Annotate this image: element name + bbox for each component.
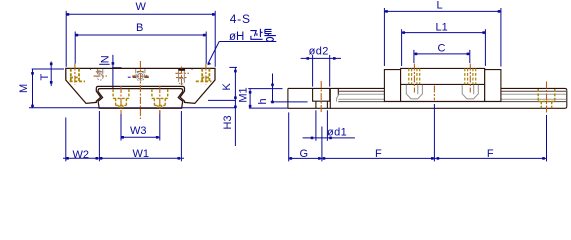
crosshair screw center short bbox=[137, 71, 144, 73]
dim L right ext bbox=[500, 8, 502, 67]
rail top line bbox=[288, 88, 567, 90]
ext rail left end bbox=[288, 112, 290, 161]
dim W1 right ext bbox=[180, 111, 182, 161]
dim W2/W1 chain line bbox=[63, 157, 184, 159]
dim L1 right ext bbox=[484, 29, 486, 66]
dim M top ext bbox=[32, 68, 64, 70]
W1 arrows bbox=[100, 157, 103, 160]
hidden block holes left bbox=[409, 68, 420, 84]
dim W3 right ext bbox=[159, 111, 161, 141]
block side view (covers rail) bbox=[384, 68, 501, 101]
crosshair screw right bbox=[175, 72, 189, 74]
dim C left tick bbox=[413, 50, 415, 63]
block body bbox=[401, 68, 485, 101]
rail left end bbox=[287, 88, 289, 108]
G arrows bbox=[290, 157, 293, 160]
ext rail top left bbox=[248, 88, 282, 90]
centerline screw right bbox=[181, 67, 183, 86]
dim W1 left ext bbox=[98, 111, 100, 161]
svg-text:L1: L1 bbox=[436, 22, 448, 34]
ext hole2 bbox=[433, 104, 435, 161]
dim M bottom ext bbox=[29, 107, 236, 109]
right view dims bbox=[248, 8, 546, 161]
block inner line bbox=[401, 83, 485, 85]
svg-text:ød2: ød2 bbox=[309, 45, 329, 57]
hidden rail hole right end bbox=[538, 89, 555, 108]
H3 arrow bbox=[234, 106, 237, 109]
section boundary 2 bbox=[337, 88, 339, 95]
dim W line bbox=[66, 13, 215, 15]
dim T vertical bbox=[50, 62, 52, 87]
orange centerlines left view bbox=[75, 61, 206, 119]
block seal step ticks bbox=[91, 68, 193, 69]
T arrows bbox=[50, 63, 53, 66]
K arrows bbox=[234, 70, 237, 73]
labels right view bbox=[237, 0, 494, 160]
block right end cap bbox=[485, 70, 501, 102]
d1 arrows bbox=[311, 137, 314, 140]
svg-text:T: T bbox=[39, 74, 51, 81]
dim L1 left ext bbox=[401, 29, 403, 66]
centerline block hole right bbox=[469, 64, 471, 93]
dim W3 line bbox=[121, 136, 160, 138]
centerline wing hole right bbox=[205, 64, 207, 85]
ext hole1 bbox=[321, 127, 323, 162]
centerline rail hole right bbox=[159, 86, 161, 114]
hidden block holes right bbox=[465, 68, 476, 84]
svg-text:M1: M1 bbox=[237, 87, 249, 102]
dim h vertical bbox=[272, 74, 274, 102]
d2 arrows bbox=[307, 57, 310, 60]
dim B line bbox=[75, 34, 206, 36]
leader arrowhead bbox=[207, 62, 211, 66]
svg-text:W3: W3 bbox=[130, 125, 147, 137]
W arrows bbox=[67, 13, 70, 16]
B arrows bbox=[76, 34, 79, 37]
dim N small ref line bbox=[112, 67, 121, 69]
dim C right tick bbox=[469, 50, 471, 63]
svg-text:F: F bbox=[487, 148, 494, 160]
crosshair grease fitting lower bbox=[94, 75, 107, 77]
dim N underline bbox=[99, 63, 109, 65]
svg-text:W1: W1 bbox=[133, 148, 150, 160]
dim B right ext bbox=[205, 32, 207, 64]
svg-text:W: W bbox=[136, 1, 147, 13]
right screw head bbox=[178, 68, 185, 70]
hidden rail hole left bbox=[113, 89, 129, 108]
rail groove lines bbox=[338, 91, 566, 101]
leader diagonal bbox=[208, 42, 219, 65]
center screw seat line bbox=[133, 76, 149, 78]
section boundary bbox=[329, 88, 331, 108]
dim d2 right ext bbox=[329, 55, 331, 87]
hidden wing hole left bbox=[70, 69, 85, 82]
rail hole section walls bbox=[313, 88, 330, 108]
centerline block hole left bbox=[413, 64, 415, 93]
svg-text:4-S: 4-S bbox=[230, 12, 251, 26]
svg-text:G: G bbox=[300, 148, 309, 160]
hidden rail hole right bbox=[152, 89, 168, 108]
korean 관통 glyphs bbox=[250, 29, 276, 42]
chain dim G F F line bbox=[289, 157, 547, 159]
centerline wing hole left bbox=[74, 64, 76, 85]
center screw bbox=[136, 69, 145, 81]
C arrows bbox=[415, 53, 418, 56]
centerline rail center bbox=[139, 61, 141, 119]
svg-text:N: N bbox=[100, 55, 112, 63]
dim C line bbox=[414, 53, 470, 55]
dim L line bbox=[384, 10, 501, 12]
dim K top ext bbox=[229, 66, 237, 68]
svg-text:F: F bbox=[375, 148, 382, 160]
dim L1 line bbox=[402, 32, 486, 34]
F2 arrows bbox=[437, 157, 440, 160]
rail cross-section bbox=[98, 89, 183, 109]
M1 arrows bbox=[249, 91, 252, 94]
labels left view bbox=[18, 1, 251, 161]
centerline rail hole 1 bbox=[320, 81, 322, 114]
dim K H3 vertical bbox=[234, 67, 236, 146]
crosshair grease fitting upper bbox=[96, 71, 105, 73]
dim M1 vertical bbox=[249, 89, 251, 109]
hidden wing hole right bbox=[196, 69, 212, 82]
rail right end bbox=[566, 90, 568, 106]
hangul tong bbox=[265, 29, 272, 33]
groove runout step bbox=[337, 95, 339, 101]
svg-text:B: B bbox=[136, 22, 143, 34]
dim d1 right ext bbox=[326, 110, 328, 141]
block left end cap bbox=[384, 70, 400, 102]
N arrows bbox=[112, 62, 115, 65]
leader underline oH bbox=[219, 41, 276, 43]
dim d1 line bbox=[303, 137, 355, 139]
M arrows bbox=[31, 72, 34, 75]
crosshair screw right lower bbox=[176, 77, 187, 79]
block outline bbox=[66, 68, 215, 103]
centerline rail hole 2 bbox=[433, 86, 435, 101]
blue dim arrow squares left view bbox=[31, 13, 237, 160]
grease fitting left bbox=[97, 69, 103, 80]
centerline rail hole 3 bbox=[546, 82, 548, 114]
svg-text:K: K bbox=[221, 83, 233, 91]
L arrows bbox=[385, 10, 388, 13]
orange centerlines right view bbox=[321, 64, 546, 114]
dim W3 left ext bbox=[120, 111, 122, 141]
dim N vertical bbox=[112, 55, 114, 89]
ball return U left bbox=[406, 85, 422, 99]
F1 arrows bbox=[323, 157, 326, 160]
svg-text:C: C bbox=[438, 43, 446, 55]
dim W2 left ext bbox=[65, 118, 67, 162]
dim W left ext bbox=[65, 11, 67, 67]
W3 arrows bbox=[121, 136, 124, 139]
svg-text:øH: øH bbox=[229, 31, 244, 43]
rail bottom line bbox=[288, 106, 567, 108]
ext counterbore depth bbox=[271, 101, 308, 103]
dim M vertical bbox=[32, 69, 34, 108]
dim L left ext bbox=[383, 8, 385, 66]
centerline rail hole left bbox=[120, 86, 122, 114]
dim W right ext bbox=[214, 11, 216, 67]
dim d1 left ext bbox=[315, 110, 317, 141]
crosshair screw center bbox=[132, 75, 149, 77]
dim d2 left ext bbox=[312, 55, 314, 87]
right screw bbox=[179, 71, 185, 84]
svg-text:M: M bbox=[18, 84, 30, 93]
ext rail bottom left bbox=[249, 107, 288, 109]
ball return U right bbox=[462, 85, 478, 99]
svg-text:H3: H3 bbox=[222, 115, 234, 129]
hangul gwan bbox=[250, 31, 257, 37]
svg-text:h: h bbox=[257, 98, 269, 104]
dim B left ext bbox=[74, 32, 76, 64]
h arrows bbox=[271, 84, 274, 87]
svg-text:L: L bbox=[437, 0, 443, 12]
ext hole3 bbox=[546, 115, 548, 161]
W2 arrows bbox=[66, 157, 69, 160]
dim H3 top ext bbox=[208, 99, 236, 101]
L1 arrows bbox=[402, 31, 405, 34]
center screw blue tick bbox=[128, 76, 131, 78]
svg-text:ød1: ød1 bbox=[327, 127, 347, 139]
dim d2 line bbox=[301, 57, 341, 59]
svg-text:W2: W2 bbox=[73, 149, 90, 161]
rail side view body bbox=[288, 88, 567, 108]
blue dim arrow squares right view bbox=[249, 10, 545, 160]
